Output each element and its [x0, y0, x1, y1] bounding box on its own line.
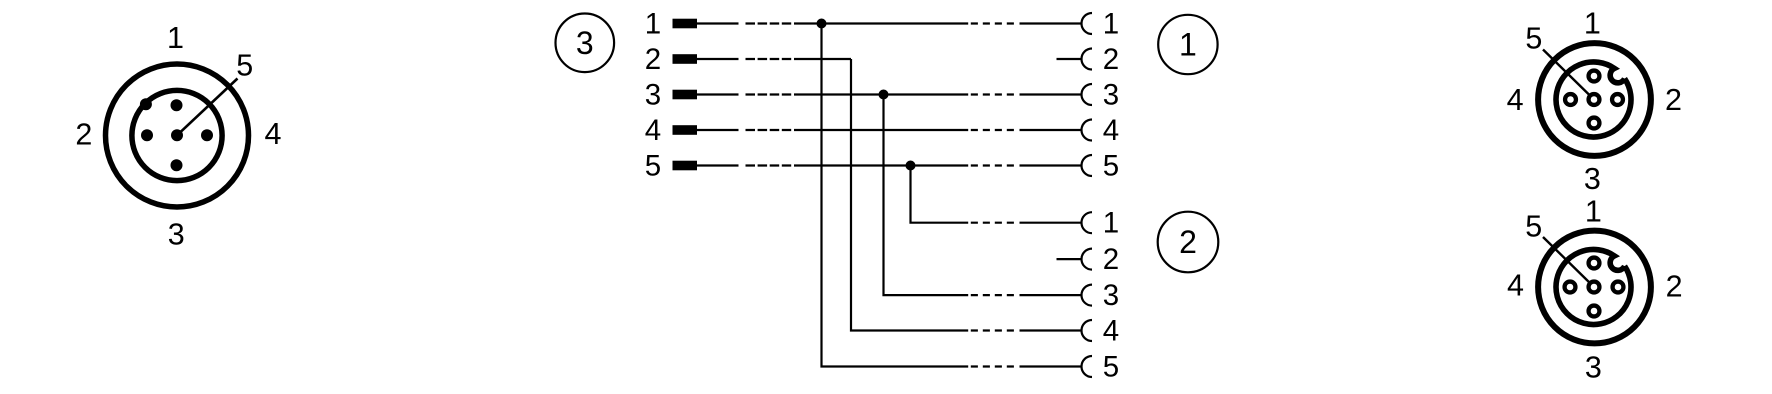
- contact arc out2 pin2: [1082, 249, 1093, 270]
- contact arc out2 pin4: [1082, 320, 1093, 341]
- svg-text:3: 3: [645, 79, 661, 112]
- node circle 2: [1158, 212, 1219, 273]
- wire row7 contact stub bottom: [1057, 258, 1082, 260]
- wire row9 right dashed: [971, 329, 1014, 331]
- svg-text:4: 4: [1507, 269, 1524, 303]
- left connector pin 5 dot: [171, 129, 183, 141]
- right connector 1 socket 5: [1589, 94, 1600, 105]
- wire row5 left solid: [697, 164, 739, 166]
- wire row3 right dashed: [971, 93, 1014, 95]
- svg-text:5: 5: [1525, 210, 1542, 244]
- right connector 2 pin 5 pointer line: [1543, 237, 1594, 287]
- svg-text:1: 1: [1585, 195, 1602, 229]
- contact arc out2 pin3: [1082, 285, 1093, 306]
- svg-text:3: 3: [1584, 162, 1601, 196]
- svg-text:4: 4: [1103, 315, 1119, 348]
- wire row1 left dashed: [746, 22, 792, 24]
- svg-text:1: 1: [1103, 8, 1119, 41]
- svg-text:2: 2: [1103, 243, 1119, 276]
- svg-text:3: 3: [1103, 79, 1119, 112]
- wire row8 right dashed: [971, 294, 1014, 296]
- contact arc out2 pin5: [1082, 356, 1093, 377]
- wire row3 left dashed: [746, 93, 792, 95]
- junction dot row5: [906, 161, 916, 171]
- svg-text:1: 1: [1584, 6, 1601, 40]
- svg-text:5: 5: [645, 150, 661, 183]
- contact arc out1 pin2: [1082, 49, 1093, 70]
- contact arc out1 pin5: [1082, 155, 1093, 176]
- svg-text:4: 4: [645, 114, 661, 147]
- node circle 3: [556, 14, 615, 73]
- wire row1 mid solid: [794, 22, 968, 24]
- contact arc out1 pin4: [1082, 120, 1093, 141]
- right connector 1 outer circle: [1538, 43, 1651, 156]
- wire end ferrule pin 2: [673, 54, 698, 64]
- left connector X3 face outer circle: [106, 64, 249, 207]
- node circle 1: [1158, 15, 1217, 74]
- wire row1 left solid: [697, 22, 739, 24]
- right connector 2 inner circle with keying notch: [1556, 250, 1631, 325]
- svg-text:3: 3: [1585, 350, 1602, 384]
- wire row4 right dashed: [971, 129, 1014, 131]
- left connector keying mark dot: [140, 98, 152, 110]
- svg-text:1: 1: [1103, 207, 1119, 240]
- junction dot row3: [879, 90, 889, 100]
- wire row5 mid solid: [794, 164, 968, 166]
- svg-text:1: 1: [1179, 27, 1197, 63]
- left connector pin 3 dot: [171, 159, 183, 171]
- svg-text:2: 2: [1103, 43, 1119, 76]
- contact arc out1 pin3: [1082, 84, 1093, 105]
- wire row1 right solid: [1020, 22, 1082, 24]
- wire end ferrule pin 5: [673, 161, 698, 171]
- svg-text:2: 2: [1666, 270, 1683, 304]
- wire branch pin2 to out2 pin4: [851, 59, 968, 331]
- right connector 2 socket 2: [1613, 282, 1624, 293]
- wire row4 right solid: [1020, 129, 1082, 131]
- wire row2 contact stub top: [1057, 58, 1082, 60]
- right connector 2 socket 3: [1589, 306, 1600, 317]
- wire end ferrule pin 1: [673, 19, 698, 29]
- wire row4 left solid: [697, 129, 739, 131]
- svg-text:2: 2: [645, 43, 661, 76]
- svg-text:3: 3: [168, 218, 185, 252]
- junction dot row1: [817, 19, 827, 29]
- wire end ferrule pin 3: [673, 90, 698, 100]
- wire row2 left dashed: [746, 58, 792, 60]
- wire branch pin5 to out2 pin1: [911, 166, 969, 223]
- svg-text:1: 1: [167, 21, 184, 55]
- wire row5 right solid: [1020, 164, 1082, 166]
- right connector 2 outer circle: [1538, 231, 1651, 344]
- svg-text:2: 2: [1665, 83, 1682, 117]
- wire row6 right solid: [1020, 222, 1082, 224]
- svg-text:5: 5: [1103, 150, 1119, 183]
- svg-text:2: 2: [75, 117, 92, 151]
- svg-text:5: 5: [1525, 22, 1542, 56]
- wire row4 left dashed: [746, 129, 792, 131]
- wire branch pin3 to out2 pin3: [884, 95, 969, 296]
- wire row2 left solid: [697, 58, 739, 60]
- right connector 1 inner circle with keying notch: [1556, 62, 1631, 137]
- wire row5 right dashed: [971, 164, 1014, 166]
- wire row1 right dashed: [971, 22, 1014, 24]
- svg-text:4: 4: [1103, 114, 1119, 147]
- right connector 1 socket 2: [1612, 94, 1623, 105]
- wire row3 right solid: [1020, 93, 1082, 95]
- right connector 2 socket 1: [1589, 258, 1600, 269]
- wire end ferrule pin 4: [673, 125, 698, 135]
- contact arc out2 pin1: [1082, 212, 1093, 233]
- svg-text:1: 1: [645, 8, 661, 41]
- right connector 1 pin 5 pointer line: [1543, 50, 1594, 100]
- wire row3 left solid: [697, 93, 739, 95]
- wire row10 right dashed: [971, 365, 1014, 367]
- wire row2 mid solid: [794, 58, 851, 60]
- svg-text:3: 3: [1103, 279, 1119, 312]
- svg-text:4: 4: [1507, 83, 1524, 117]
- left connector pin 2 dot: [141, 129, 153, 141]
- wire row3 mid solid: [794, 93, 968, 95]
- wire branch pin1 to out2 pin5: [822, 24, 969, 367]
- wire row9 right solid: [1020, 329, 1082, 331]
- wire row10 right solid: [1020, 365, 1082, 367]
- svg-text:2: 2: [1179, 224, 1197, 260]
- wire row8 right solid: [1020, 294, 1082, 296]
- right connector 1 socket 1: [1589, 71, 1600, 82]
- right connector 1 socket 4: [1565, 94, 1576, 105]
- left connector X3 face inner circle: [132, 90, 222, 180]
- right connector 1 socket 3: [1589, 118, 1600, 129]
- wire row5 left dashed: [746, 164, 792, 166]
- svg-text:5: 5: [236, 49, 253, 83]
- svg-text:5: 5: [1103, 351, 1119, 384]
- wire row6 right dashed: [971, 222, 1014, 224]
- left connector pin 5 pointer line: [177, 79, 238, 136]
- left connector pin 1 dot: [171, 99, 183, 111]
- left connector pin 4 dot: [201, 129, 213, 141]
- svg-text:3: 3: [576, 25, 594, 61]
- svg-text:4: 4: [265, 117, 282, 151]
- wire row4 mid solid: [794, 129, 968, 131]
- right connector 2 socket 5: [1589, 282, 1600, 293]
- contact arc out1 pin1: [1082, 13, 1093, 34]
- right connector 2 socket 4: [1565, 282, 1576, 293]
